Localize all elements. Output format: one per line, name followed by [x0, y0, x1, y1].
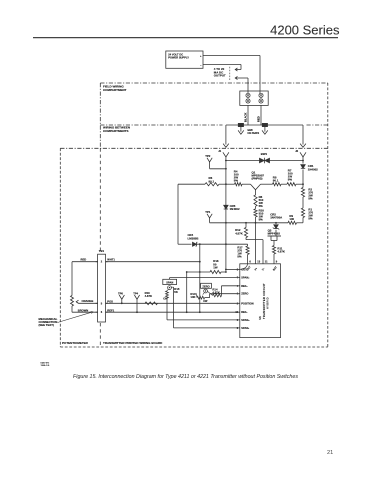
svg-text:FILTERS: FILTERS: [248, 131, 260, 135]
potentiometer SPAN R15: [163, 279, 177, 284]
wire: [275, 223, 277, 224]
svg-text:RED: RED: [81, 258, 87, 262]
svg-text:BAT: BAT: [272, 265, 278, 271]
svg-text:WHT1: WHT1: [107, 258, 115, 262]
svg-text:4.87K: 4.87K: [277, 250, 286, 254]
right boundary vertical: [327, 83, 329, 347]
hybrid circuit U1: [240, 264, 281, 338]
wire pin 2 POSITION: [106, 302, 240, 304]
wiring-between boundary left part: [100, 124, 222, 126]
svg-text:4.87K: 4.87K: [235, 231, 244, 235]
svg-text:6: 6: [249, 260, 251, 264]
svg-text:5%: 5%: [308, 217, 313, 221]
resistor R5: [273, 183, 282, 186]
svg-text:100: 100: [289, 217, 294, 221]
wire: [245, 223, 247, 228]
svg-text:2: 2: [101, 260, 103, 264]
TPx: [207, 158, 212, 162]
wire main left vertical: [225, 161, 227, 273]
svg-text:POWER SUPPLY: POWER SUPPLY: [168, 56, 189, 60]
wire pin 8 OUT&#8321;: [226, 268, 240, 270]
U1 top pin labels: [240, 264, 248, 270]
resistor R14: [213, 294, 222, 297]
svg-text:5%: 5%: [234, 179, 239, 183]
svg-text:OUT₁: OUT₁: [241, 267, 248, 271]
wire pin7 down to SPAN pot: [169, 278, 171, 280]
svg-text:5: 5: [101, 301, 103, 305]
svg-text:RED: RED: [256, 116, 260, 122]
svg-text:(PNP03): (PNP03): [252, 177, 263, 181]
svg-text:POTENTIOMETER: POTENTIOMETER: [62, 341, 89, 345]
terminal screw: [259, 99, 263, 103]
power supply box: [166, 51, 203, 68]
position potentiometer element: [71, 262, 73, 296]
svg-text:1N4002: 1N4002: [230, 207, 240, 211]
svg-text:LM385B: LM385B: [188, 236, 199, 240]
svg-text:5%: 5%: [288, 178, 293, 182]
EMI filter right: [262, 123, 267, 126]
wire pin 1 ZERO: [210, 293, 240, 295]
output bracket dashes: [229, 67, 231, 80]
resistor R18 rail: [187, 271, 210, 273]
potentiometer ZERO R13: [201, 283, 212, 288]
transistor Q1: [251, 184, 261, 190]
wire: supply - to output arrow: [203, 64, 241, 66]
wire vertical x=187: [186, 272, 188, 312]
svg-text:REF₁: REF₁: [241, 310, 247, 314]
svg-text:MPF4392: MPF4392: [268, 232, 281, 236]
diode CR5: [224, 205, 228, 209]
wire pin 7 SPAN&#8322;: [170, 277, 240, 279]
EMI filter left: [238, 123, 243, 126]
diode CR1: [301, 165, 305, 169]
resistor R11: [272, 246, 275, 255]
svg-text:COMPARTMENTS: COMPARTMENTS: [103, 129, 128, 133]
svg-text:4200 Series: 4200 Series: [270, 23, 340, 38]
resistor R1: [301, 208, 304, 218]
ground right filter: [264, 127, 266, 132]
wire node A top rail: [226, 160, 303, 162]
wire RED: [72, 261, 98, 263]
resistor R4: [235, 183, 243, 186]
svg-text:COMPARTMENT: COMPARTMENT: [103, 88, 127, 92]
resistor R13: [197, 296, 205, 299]
wire: output arrow to terminal block: [243, 77, 249, 79]
wire: [302, 218, 304, 223]
svg-text:11: 11: [265, 260, 268, 264]
svg-text:BW1: BW1: [261, 152, 268, 156]
compartment divider vertical upper: [99, 83, 101, 148]
svg-text:5%: 5%: [237, 255, 242, 259]
svg-text:6: 6: [101, 310, 103, 314]
svg-text:V−: V−: [261, 267, 266, 272]
resistor R8: [254, 195, 257, 206]
wire pin4 corner down to R14: [221, 286, 223, 296]
TPx: [207, 214, 212, 218]
svg-text:5K: 5K: [174, 290, 178, 294]
svg-text:ORANGE: ORANGE: [82, 299, 94, 303]
svg-text:1N4002: 1N4002: [308, 167, 318, 171]
resistor R10: [254, 209, 257, 217]
svg-text:U1: U1: [258, 316, 262, 320]
zener CR2: [274, 225, 278, 229]
svg-text:TRANSMITTER CIRCUIT: TRANSMITTER CIRCUIT: [262, 283, 266, 319]
terminal screw: [259, 93, 263, 97]
terminal screw: [246, 93, 250, 97]
svg-text:TB1: TB1: [99, 249, 105, 253]
svg-text:SPAN₁: SPAN₁: [241, 326, 249, 330]
svg-text:HYBRID: HYBRID: [266, 297, 270, 309]
svg-text:+: +: [200, 55, 202, 58]
wire WHT1 from TB1: [106, 261, 200, 263]
resistor R7: [287, 183, 296, 186]
svg-text:90.1: 90.1: [209, 179, 215, 183]
wire pin1 corner down to R13: [209, 294, 211, 298]
wire from R6 corner down: [177, 184, 179, 244]
wire BROWN: [72, 311, 98, 313]
svg-text:TP4: TP4: [133, 291, 138, 295]
terminal screw: [246, 99, 250, 103]
svg-text:90.1: 90.1: [273, 179, 279, 183]
resistor R10b position: [145, 302, 158, 305]
svg-text:CW: CW: [203, 300, 208, 303]
svg-text:9: 9: [276, 260, 278, 264]
svg-text:TRANSMITTER PRINTED WIRING BOA: TRANSMITTER PRINTED WIRING BOARD: [103, 341, 163, 345]
wiring-between boundary right part: [307, 124, 328, 126]
svg-text:POS: POS: [107, 300, 113, 304]
svg-text:5%: 5%: [308, 197, 313, 201]
resistor R6: [205, 183, 219, 186]
resistor R12: [244, 228, 247, 238]
svg-text:OUTPUT: OUTPUT: [214, 74, 226, 78]
svg-text:1W: 1W: [213, 265, 218, 269]
svg-text:ZERO: ZERO: [241, 292, 248, 296]
svg-text:10K: 10K: [190, 295, 195, 299]
wire rail y=244: [197, 243, 248, 245]
transmitter enclosure dashed box: [60, 147, 328, 149]
field wiring compartment boundary (top): [100, 82, 327, 84]
wire: [302, 161, 304, 164]
wire Q1 base down: [255, 190, 257, 195]
wire pin 4 REF&#8322;: [222, 285, 240, 287]
TPx: [119, 295, 124, 299]
divider lower: [99, 323, 101, 347]
field wiring terminal block: [240, 91, 268, 105]
svg-text:TP1: TP1: [205, 210, 211, 214]
svg-text:13: 13: [257, 260, 260, 264]
svg-text:BLACK: BLACK: [243, 113, 247, 122]
svg-text:J1: J1: [218, 149, 221, 153]
svg-text:−: −: [200, 64, 202, 67]
svg-text:TP6: TP6: [118, 291, 123, 295]
wire right entry with arrow: [302, 125, 304, 145]
TPx: [134, 295, 139, 299]
junction: [225, 183, 227, 185]
svg-text:TP2: TP2: [205, 154, 211, 158]
svg-text:BROWN: BROWN: [78, 308, 89, 312]
wire: supply + to terminal block: [203, 55, 260, 57]
svg-text:POSITION: POSITION: [241, 301, 254, 305]
svg-text:J2: J2: [295, 149, 298, 153]
svg-text:SPAN₃: SPAN₃: [241, 318, 250, 322]
wire vertical x=200: [199, 244, 201, 312]
wires terminal block down: [247, 105, 249, 125]
resistor R9: [288, 221, 297, 224]
svg-text:1366-C-IL: 1366-C-IL: [41, 365, 51, 367]
svg-text:1N4750A: 1N4750A: [270, 216, 282, 220]
wiper wire ORANGE: [79, 302, 98, 304]
wire pin 3 SPAN&#8321;: [174, 327, 240, 329]
svg-text:REF1: REF1: [107, 308, 114, 312]
wire R10 bottom to pin 13: [255, 223, 257, 264]
wire through emi filters: [226, 124, 303, 126]
svg-text:5%: 5%: [259, 217, 264, 221]
svg-text:SPAN₂: SPAN₂: [241, 276, 250, 280]
wire left entry with arrow: [225, 125, 227, 145]
wire SPAN low end to pin5: [166, 298, 168, 320]
resistor R2: [301, 188, 304, 198]
svg-text:ZERO: ZERO: [202, 284, 209, 288]
svg-text:SPAN: SPAN: [166, 281, 173, 285]
resistor R17: [246, 246, 249, 255]
resistor rail y=184: [178, 183, 205, 185]
wire SPAN high end to pin3: [173, 287, 175, 328]
svg-text:D4671E2: D4671E2: [41, 363, 51, 365]
wire pin 5 SPAN&#8323;: [167, 319, 240, 321]
svg-text:V+: V+: [254, 267, 259, 272]
ground left filter: [240, 127, 242, 132]
divider between potentiometer and PWB sections (upper): [99, 148, 101, 252]
header rule: [33, 37, 338, 39]
wire mid rail y=223: [226, 222, 288, 224]
svg-text:4.87K: 4.87K: [145, 294, 152, 298]
svg-text:5%: 5%: [259, 204, 264, 208]
svg-text:REF₂: REF₂: [241, 284, 248, 288]
svg-text:(SEE TEXT): (SEE TEXT): [39, 323, 54, 327]
wire pin 10 REF&#8321;: [106, 311, 240, 313]
